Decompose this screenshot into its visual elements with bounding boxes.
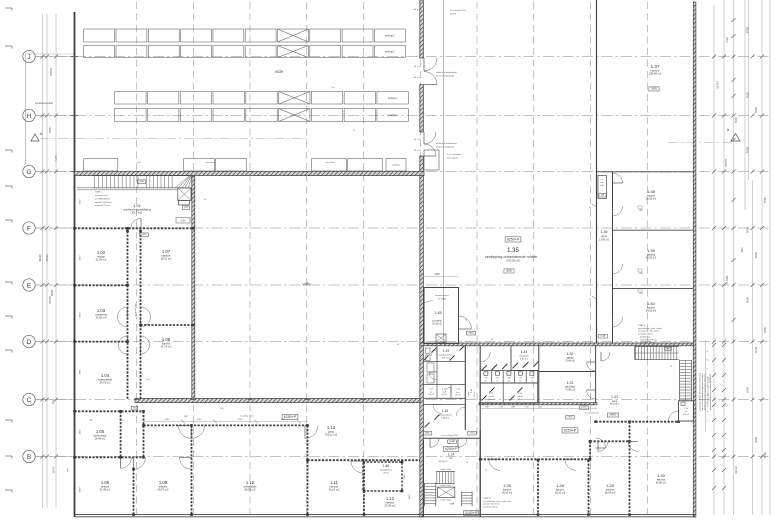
svg-text:1.31: 1.31 <box>567 381 574 385</box>
svg-text:5000: 5000 <box>746 91 750 98</box>
svg-text:in afstand 20m1: in afstand 20m1 <box>585 412 600 415</box>
svg-text:21,60 m2: 21,60 m2 <box>96 316 107 320</box>
svg-text:gang: gang <box>468 392 470 396</box>
svg-text:48330: 48330 <box>38 254 42 262</box>
svg-text:5000: 5000 <box>746 296 750 303</box>
svg-text:wasbl: wasbl <box>517 396 523 398</box>
svg-text:optrede 182,35mm: optrede 182,35mm <box>95 201 112 204</box>
svg-text:11743: 11743 <box>52 466 56 474</box>
svg-text:stellingen: stellingen <box>388 97 398 100</box>
svg-text:(380): (380) <box>506 270 512 273</box>
svg-text:1.36: 1.36 <box>601 230 608 234</box>
svg-text:2400: 2400 <box>538 406 542 408</box>
svg-text:afm.: afm. <box>666 348 670 350</box>
svg-text:1587: 1587 <box>485 406 489 408</box>
svg-text:(292): (292) <box>470 433 475 435</box>
svg-text:1.03: 1.03 <box>97 308 106 313</box>
svg-text:hal: hal <box>449 458 453 460</box>
svg-text:aantrede 270mm: aantrede 270mm <box>640 341 655 344</box>
svg-text:1,56 m2: 1,56 m2 <box>441 394 447 396</box>
svg-text:vide: vide <box>275 69 284 74</box>
svg-text:17,86 m2: 17,86 m2 <box>599 239 610 242</box>
svg-text:324: 324 <box>52 399 55 404</box>
svg-text:24,15 m2: 24,15 m2 <box>646 310 657 313</box>
svg-text:(1a): (1a) <box>146 379 150 381</box>
svg-text:5000: 5000 <box>746 146 750 153</box>
svg-text:wc: wc <box>485 381 487 383</box>
svg-text:patchkast: patchkast <box>565 386 575 389</box>
svg-text:4800: 4800 <box>80 369 82 375</box>
svg-text:1.02: 1.02 <box>97 250 106 255</box>
svg-text:28,16 m2: 28,16 m2 <box>502 492 513 495</box>
svg-text:1.14: 1.14 <box>448 453 455 457</box>
svg-text:105,11 m2: 105,11 m2 <box>325 433 338 437</box>
svg-text:2,60 m2: 2,60 m2 <box>488 399 495 401</box>
svg-text:8750: 8750 <box>746 26 750 33</box>
svg-text:1.04: 1.04 <box>101 373 110 378</box>
svg-text:3100+P: 3100+P <box>465 511 478 515</box>
svg-text:5060: 5060 <box>746 226 750 233</box>
svg-text:wandcontactdoos tbv apparatuur: wandcontactdoos tbv apparatuur hoogte <box>701 373 704 411</box>
svg-text:30 dB(A): 30 dB(A) <box>438 298 446 301</box>
svg-text:1961: 1961 <box>741 247 744 253</box>
svg-text:J: J <box>27 54 30 61</box>
svg-text:tredeb. 1000+: tredeb. 1000+ <box>440 484 451 487</box>
svg-text:23,06 m2: 23,06 m2 <box>385 504 396 508</box>
svg-text:1.08: 1.08 <box>162 337 171 342</box>
svg-text:G: G <box>26 169 31 176</box>
svg-text:vide: vide <box>450 502 455 506</box>
svg-text:wc: wc <box>519 381 521 383</box>
svg-text:tredeb. 1000+: tredeb. 1000+ <box>440 468 451 471</box>
svg-text:5060: 5060 <box>763 327 767 333</box>
svg-text:47660: 47660 <box>45 254 49 262</box>
svg-text:(049): (049) <box>142 234 147 236</box>
svg-text:1.06: 1.06 <box>101 480 110 485</box>
svg-text:28,16 m2: 28,16 m2 <box>555 492 566 495</box>
svg-text:5000: 5000 <box>746 386 750 393</box>
svg-text:6250+P: 6250+P <box>507 238 520 242</box>
svg-text:8 m2: 8 m2 <box>384 473 390 475</box>
svg-text:11142: 11142 <box>734 466 738 474</box>
svg-text:(08): (08) <box>601 195 605 197</box>
svg-text:(058): (058) <box>139 181 144 183</box>
svg-text:wc: wc <box>430 391 432 393</box>
svg-text:TRAP 1L: TRAP 1L <box>483 497 492 500</box>
svg-text:90,50 m2: 90,50 m2 <box>245 488 256 492</box>
svg-text:24,75 m2: 24,75 m2 <box>100 381 111 385</box>
svg-text:71,46 m2: 71,46 m2 <box>565 390 575 392</box>
svg-text:4742: 4742 <box>238 419 244 421</box>
svg-text:(292): (292) <box>425 433 430 435</box>
svg-text:4800: 4800 <box>80 255 82 261</box>
svg-text:40,07 m2: 40,07 m2 <box>158 488 169 492</box>
svg-text:5808: 5808 <box>80 487 82 493</box>
svg-text:1.35: 1.35 <box>507 248 519 254</box>
svg-text:aantrede 270mm: aantrede 270mm <box>483 505 498 508</box>
svg-text:elektrisch bedienbare: elektrisch bedienbare <box>436 142 458 145</box>
svg-text:ontruimingsinst.: ontruimingsinst. <box>435 294 449 297</box>
svg-text:a.b.meet 35m: a.b.meet 35m <box>134 303 137 317</box>
svg-text:0,84: 0,84 <box>600 185 604 187</box>
svg-text:tredeb. 1000+: tredeb. 1000+ <box>440 499 451 502</box>
svg-text:9,97 m2: 9,97 m2 <box>442 358 451 360</box>
svg-text:portaal heren: portaal heren <box>440 354 454 357</box>
svg-text:(373,05 m2): (373,05 m2) <box>506 260 520 263</box>
svg-text:1480: 1480 <box>511 406 515 408</box>
svg-text:deuren loopdeurtje: deuren loopdeurtje <box>436 75 455 78</box>
svg-text:43,38 m2: 43,38 m2 <box>438 461 448 463</box>
svg-text:1.01: 1.01 <box>133 203 142 208</box>
svg-text:5808: 5808 <box>50 289 54 296</box>
svg-text:1.28: 1.28 <box>556 483 565 488</box>
svg-text:31,48 m2: 31,48 m2 <box>100 488 111 492</box>
svg-text:1.18: 1.18 <box>442 409 448 413</box>
svg-text:patchkast: patchkast <box>519 355 529 358</box>
svg-text:1.33: 1.33 <box>611 395 618 399</box>
svg-text:ontsluiting: ontsluiting <box>205 161 216 164</box>
svg-text:0.84: 0.84 <box>181 220 186 223</box>
svg-text:1.45: 1.45 <box>435 311 442 315</box>
svg-text:vide: vide <box>302 282 311 287</box>
svg-text:41,74 m2: 41,74 m2 <box>161 345 172 349</box>
svg-text:verstelbouwte staal, timber ho: verstelbouwte staal, timber hout <box>483 500 512 503</box>
svg-text:1.37: 1.37 <box>651 64 660 69</box>
svg-text:TRAP a.: TRAP a. <box>95 191 103 194</box>
svg-text:A: A <box>40 131 43 136</box>
svg-text:H: H <box>27 113 32 120</box>
svg-text:deuren loopdeurtje: deuren loopdeurtje <box>436 146 455 149</box>
svg-text:1.13: 1.13 <box>327 425 336 430</box>
svg-text:6250+P: 6250+P <box>284 415 297 419</box>
svg-text:(61,7 m2): (61,7 m2) <box>132 212 142 215</box>
svg-text:1,56 m2: 1,56 m2 <box>428 394 434 396</box>
svg-text:21,60 m2: 21,60 m2 <box>96 258 107 262</box>
svg-text:(0): (0) <box>133 408 136 410</box>
svg-text:4800: 4800 <box>80 312 82 318</box>
svg-text:15,44 m2: 15,44 m2 <box>95 437 106 441</box>
svg-text:verstelbouwte staal, timber: verstelbouwte staal, timber <box>638 327 662 330</box>
svg-text:aanwezige afvoer tbv nieuwe vo: aanwezige afvoer tbv nieuwe voorziening <box>699 372 702 411</box>
svg-text:brandmeldinstallatie conform N: brandmeldinstallatie conform NEN2535 <box>709 373 712 410</box>
svg-text:1.40: 1.40 <box>647 301 656 306</box>
svg-text:WM: WM <box>639 273 643 275</box>
svg-text:16562: 16562 <box>49 67 53 76</box>
svg-text:1.26: 1.26 <box>503 483 512 488</box>
svg-text:wc: wc <box>685 411 687 413</box>
svg-text:cv-ruimte: cv-ruimte <box>432 320 442 323</box>
svg-text:1.12: 1.12 <box>386 496 395 501</box>
svg-text:(380): (380) <box>651 88 657 91</box>
svg-text:7018: 7018 <box>725 37 729 43</box>
svg-text:stellingen: stellingen <box>388 114 398 117</box>
svg-text:(4640): (4640) <box>610 414 617 417</box>
svg-text:(175): (175) <box>582 407 587 409</box>
svg-text:5000: 5000 <box>754 251 758 258</box>
svg-text:wc: wc <box>496 381 498 383</box>
svg-text:WM: WM <box>639 210 643 212</box>
svg-text:(11): (11) <box>184 207 188 209</box>
svg-text:A: A <box>727 127 730 132</box>
svg-text:19,28 m2: 19,28 m2 <box>432 324 442 326</box>
svg-text:21075: 21075 <box>724 159 728 167</box>
svg-text:uvo MMXMCMG: uvo MMXMCMG <box>95 198 110 200</box>
svg-text:138,48 m2: 138,48 m2 <box>649 72 662 76</box>
svg-text:16342: 16342 <box>716 81 720 89</box>
svg-text:6000: 6000 <box>80 199 82 205</box>
svg-text:6250+P: 6250+P <box>445 447 458 451</box>
svg-text:73,46 m2: 73,46 m2 <box>565 361 575 363</box>
svg-text:18436: 18436 <box>48 296 52 304</box>
svg-text:26,05 m2: 26,05 m2 <box>646 257 657 260</box>
svg-text:C: C <box>27 397 32 404</box>
svg-text:1.43: 1.43 <box>521 350 528 354</box>
svg-text:1.19: 1.19 <box>443 349 450 353</box>
svg-text:1.39: 1.39 <box>647 248 656 253</box>
svg-text:0,96 m2: 0,96 m2 <box>455 395 461 397</box>
svg-text:wasbl: wasbl <box>488 396 494 398</box>
svg-text:F: F <box>27 225 31 232</box>
svg-text:b+r tr.schappen: b+r tr.schappen <box>447 153 462 156</box>
svg-text:D: D <box>27 339 32 346</box>
svg-text:7,06 m2: 7,06 m2 <box>441 418 450 420</box>
svg-text:in te storten 20x1: in te storten 20x1 <box>450 9 467 12</box>
svg-text:opslag: opslag <box>567 358 574 360</box>
svg-text:stellingen: stellingen <box>385 51 395 54</box>
svg-text:B: B <box>27 454 31 461</box>
svg-text:kast: kast <box>600 181 604 184</box>
svg-text:60,86 m2: 60,86 m2 <box>656 482 667 485</box>
svg-text:5000: 5000 <box>48 127 52 133</box>
svg-text:20x1 (6125): 20x1 (6125) <box>447 158 458 160</box>
svg-text:wc: wc <box>508 381 510 383</box>
svg-text:UPN: UPN <box>55 155 58 160</box>
svg-text:4,21 m2: 4,21 m2 <box>517 399 524 401</box>
svg-text:(1dA): (1dA) <box>601 335 606 338</box>
svg-text:aantrede 270mm: aantrede 270mm <box>95 204 110 207</box>
svg-text:5000: 5000 <box>734 117 738 123</box>
svg-text:in te-schlagel 20x1: in te-schlagel 20x1 <box>442 434 460 437</box>
svg-text:elektrisch bedienbare: elektrisch bedienbare <box>436 71 458 74</box>
svg-text:5,52 m2: 5,52 m2 <box>474 392 476 399</box>
svg-text:aantrede 270mm: aantrede 270mm <box>638 332 653 335</box>
svg-text:(392): (392) <box>568 417 573 419</box>
svg-text:1.38: 1.38 <box>647 189 656 194</box>
svg-text:3038: 3038 <box>754 436 758 443</box>
svg-text:WM: WM <box>639 293 643 295</box>
svg-text:kast: kast <box>456 391 460 394</box>
svg-text:stellingen: stellingen <box>392 164 400 167</box>
svg-text:9,91 m2: 9,91 m2 <box>520 359 529 361</box>
svg-text:1100: 1100 <box>197 419 202 421</box>
svg-text:1.09: 1.09 <box>159 480 168 485</box>
svg-text:stellingen: stellingen <box>385 35 395 38</box>
svg-text:E: E <box>27 282 32 289</box>
svg-text:portaal dames: portaal dames <box>438 414 453 417</box>
svg-text:optrede 182,35mm: optrede 182,35mm <box>483 503 500 506</box>
svg-text:1,36 m2: 1,36 m2 <box>683 414 690 416</box>
svg-text:(92): (92) <box>184 416 188 418</box>
svg-text:1.30: 1.30 <box>657 473 666 478</box>
svg-text:1.10: 1.10 <box>246 480 255 485</box>
svg-text:18,21 m2: 18,21 m2 <box>161 257 172 261</box>
svg-text:wc: wc <box>531 381 533 383</box>
svg-text:(380): (380) <box>468 333 473 335</box>
svg-text:26,05 m2: 26,05 m2 <box>646 198 657 201</box>
svg-text:4800: 4800 <box>80 429 82 435</box>
svg-text:8750: 8750 <box>763 196 767 203</box>
svg-text:materiaal hout: materiaal hout <box>95 194 108 197</box>
svg-text:120: 120 <box>525 406 528 408</box>
svg-text:(14): (14) <box>220 408 224 410</box>
svg-text:1.46: 1.46 <box>383 464 390 468</box>
svg-text:95,84 m2: 95,84 m2 <box>610 404 620 406</box>
svg-text:14,0786: 14,0786 <box>726 275 729 284</box>
svg-text:spreekkamer: spreekkamer <box>380 469 393 472</box>
svg-text:2600: 2600 <box>434 274 440 276</box>
svg-text:gehele trap: gehele trap <box>640 336 651 339</box>
svg-text:120: 120 <box>499 406 502 408</box>
svg-text:28,04 m2: 28,04 m2 <box>605 492 616 495</box>
svg-text:TRAP in: TRAP in <box>638 324 645 327</box>
svg-text:7042: 7042 <box>754 346 758 353</box>
svg-text:26,16 m2: 26,16 m2 <box>329 488 340 492</box>
svg-text:(6125): (6125) <box>450 14 456 16</box>
svg-text:1.05: 1.05 <box>96 429 105 434</box>
svg-text:hout optrede 182,35mm: hout optrede 182,35mm <box>638 330 660 333</box>
svg-text:in aanleg 20m1: in aanleg 20m1 <box>240 416 255 418</box>
svg-text:d.br: d.br <box>66 468 69 472</box>
svg-text:1.32: 1.32 <box>567 352 574 356</box>
svg-text:5060: 5060 <box>754 106 758 113</box>
svg-text:4495: 4495 <box>165 419 171 421</box>
svg-text:1.29: 1.29 <box>606 483 615 488</box>
svg-text:4050: 4050 <box>763 451 767 458</box>
svg-text:gang: gang <box>612 400 618 403</box>
svg-text:verdieping onbenoemde ruimte: verdieping onbenoemde ruimte <box>485 255 537 259</box>
svg-text:ontsluiting: ontsluiting <box>325 161 336 164</box>
svg-text:loods/bouwdeel: loods/bouwdeel <box>35 101 53 105</box>
svg-text:optrede 182,35mm: optrede 182,35mm <box>640 338 657 341</box>
svg-text:6250+P: 6250+P <box>564 429 577 433</box>
svg-text:(1dA): (1dA) <box>450 440 455 443</box>
svg-text:1.07: 1.07 <box>162 249 171 254</box>
svg-text:1.11: 1.11 <box>330 480 339 485</box>
svg-text:(1a): (1a) <box>331 87 335 89</box>
